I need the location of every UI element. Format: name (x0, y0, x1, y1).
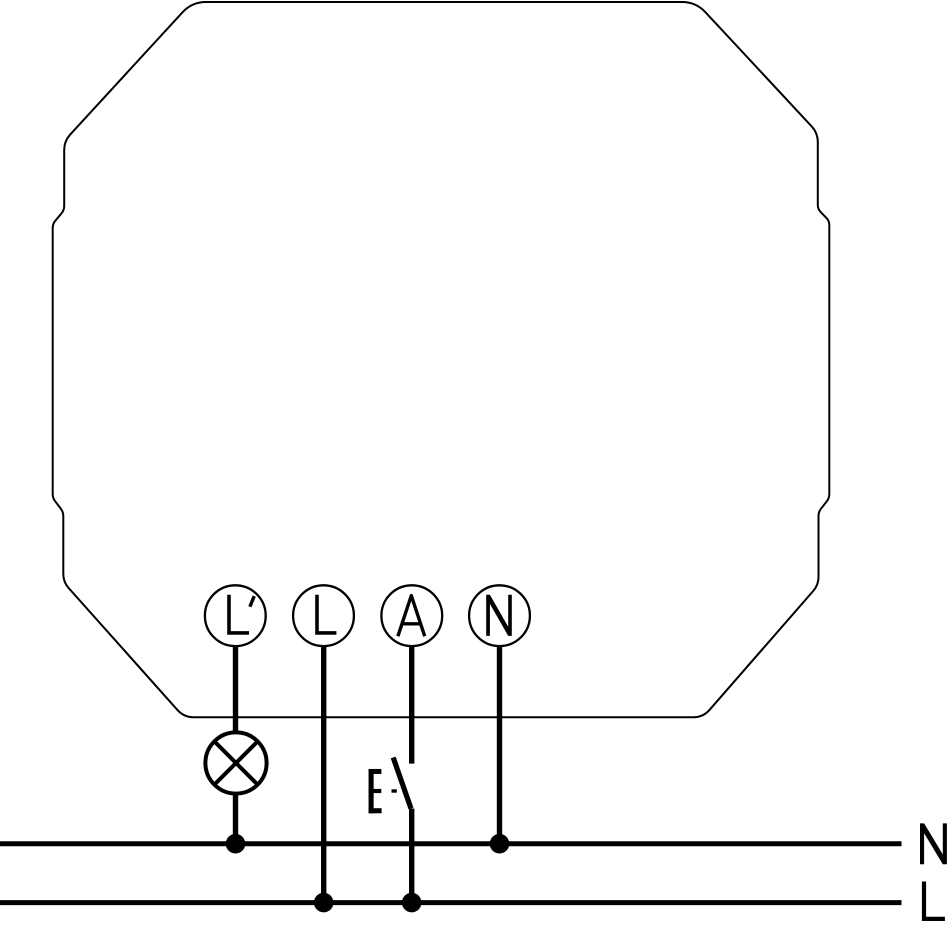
terminal L' letter (229, 595, 249, 633)
junction dot L' wire on N rail (226, 834, 246, 854)
N rail (0, 841, 902, 846)
wire from lamp to N rail (233, 792, 238, 844)
junction dot N wire on N rail (490, 834, 510, 854)
wire from terminal L to L rail (321, 646, 326, 903)
terminal N circle (469, 585, 530, 646)
terminal A letter (398, 596, 425, 637)
wire from terminal A to switch (409, 646, 414, 764)
terminal L' prime mark (250, 596, 254, 607)
label N (neutral rail) (920, 823, 947, 864)
switch label E (369, 769, 382, 813)
wire from terminal N to N rail (497, 646, 502, 844)
lamp E1 (circle with cross) (205, 732, 266, 793)
terminal N letter (486, 595, 512, 636)
switch S1 blade (393, 758, 411, 809)
junction dot A wire on L rail (402, 893, 422, 913)
label L (line rail) (924, 882, 945, 919)
terminal L circle (293, 585, 354, 646)
flush-mount actuator housing outline (53, 2, 830, 717)
switch label dash (392, 789, 397, 792)
terminal L letter (317, 595, 336, 633)
wire from terminal L' to lamp (233, 646, 238, 735)
wire from switch to L rail (409, 809, 414, 903)
junction dot L wire on L rail (314, 893, 334, 913)
terminal A circle (381, 585, 442, 646)
L rail (0, 900, 902, 905)
terminal L' circle (205, 585, 266, 646)
